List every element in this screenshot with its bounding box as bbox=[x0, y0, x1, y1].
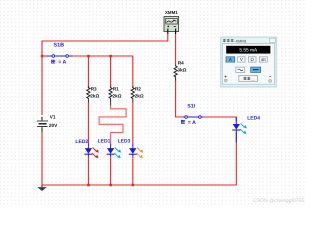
node: junction R1 top bbox=[109, 55, 112, 58]
svg-text:20V: 20V bbox=[49, 123, 58, 128]
wire: R1 branch top bbox=[110, 56, 112, 87]
LED2 bbox=[84, 144, 99, 159]
svg-text:R3: R3 bbox=[91, 86, 97, 91]
wire: R3 branch top bbox=[87, 56, 89, 88]
resistor R2 bbox=[131, 86, 134, 102]
wire: S1I to LED4 corner bbox=[203, 117, 236, 122]
svg-text:2kΩ: 2kΩ bbox=[135, 93, 144, 98]
svg-text:LED4: LED4 bbox=[247, 116, 260, 122]
svg-text:CSDN @chenggt0765: CSDN @chenggt0765 bbox=[253, 198, 305, 204]
LED3 bbox=[129, 144, 144, 159]
terminal minus bbox=[269, 77, 272, 83]
wire: bottom rail bbox=[42, 184, 236, 186]
window title bbox=[223, 39, 234, 42]
svg-text:LED1: LED1 bbox=[98, 139, 111, 145]
svg-text:dB: dB bbox=[261, 57, 266, 62]
svg-text:2kΩ: 2kΩ bbox=[113, 93, 122, 98]
svg-text:V: V bbox=[240, 57, 243, 62]
battery V1 bbox=[37, 117, 48, 132]
svg-text:LED3: LED3 bbox=[118, 139, 131, 145]
svg-text:XMM1: XMM1 bbox=[165, 10, 178, 15]
LED1 bbox=[107, 144, 122, 159]
wire: top rail from corner to multimeter left terminal bbox=[42, 34, 168, 41]
svg-text:...: ... bbox=[251, 76, 255, 81]
node: junction LED1 bottom bbox=[109, 184, 112, 187]
svg-text:R1: R1 bbox=[113, 86, 119, 91]
wire: LED2 bottom bbox=[87, 156, 89, 185]
wire: R4 bottom to S1I corner bbox=[176, 80, 183, 118]
svg-text:LED2: LED2 bbox=[75, 139, 88, 145]
node: junction left rail bbox=[41, 55, 44, 58]
button sine bbox=[236, 67, 245, 72]
svg-text:= A: = A bbox=[188, 120, 196, 126]
wire: switch rail S1B to R2 branch corner bbox=[72, 56, 133, 88]
label key = A (S1B) bbox=[51, 60, 55, 64]
button DC (selected) bbox=[251, 67, 261, 72]
resistor R3 bbox=[87, 86, 90, 102]
button ohm bbox=[249, 57, 257, 62]
svg-text:3kΩ: 3kΩ bbox=[177, 67, 186, 72]
wire: multimeter right terminal to R4 bbox=[175, 34, 177, 66]
wire: snake R1 bottom to LED1 bbox=[99, 106, 126, 144]
ground bbox=[37, 185, 46, 191]
button settings bbox=[239, 75, 258, 81]
switch S1I bbox=[183, 116, 203, 119]
svg-text:= A: = A bbox=[58, 60, 66, 66]
terminal plus bbox=[224, 76, 227, 83]
wire: switch rail left segment bbox=[42, 55, 48, 57]
label key = A (S1I) bbox=[181, 120, 185, 124]
wire: LED3 bottom bbox=[132, 156, 134, 185]
resistor R1 bbox=[109, 86, 112, 106]
svg-text:S1B: S1B bbox=[54, 43, 65, 49]
wire: battery bottom to ground corner bbox=[41, 132, 43, 186]
svg-text:V1: V1 bbox=[50, 115, 56, 120]
wire: LED1 bottom bbox=[110, 156, 112, 185]
multimeter XMM1 icon bbox=[164, 17, 179, 35]
svg-text:2kΩ: 2kΩ bbox=[90, 93, 99, 98]
svg-text:-XMM1: -XMM1 bbox=[234, 38, 247, 43]
button dB bbox=[260, 57, 268, 62]
node: junction LED2 bottom bbox=[87, 184, 90, 187]
node: junction LED3 bottom bbox=[132, 184, 135, 187]
svg-text:S1I: S1I bbox=[187, 104, 195, 110]
LED4 bbox=[232, 117, 247, 142]
button V bbox=[238, 57, 245, 62]
svg-text:R2: R2 bbox=[135, 86, 141, 91]
svg-text:5.55 mA: 5.55 mA bbox=[239, 48, 258, 54]
resistor R4 bbox=[174, 65, 177, 81]
wire: LED4 bottom to rail bbox=[235, 132, 237, 186]
wire: R2 bottom to LED3 bbox=[132, 102, 134, 144]
button A (selected) bbox=[226, 57, 235, 62]
svg-text:R4: R4 bbox=[178, 60, 184, 65]
node: junction R3 top bbox=[87, 55, 90, 58]
svg-text:A: A bbox=[229, 57, 232, 62]
switch S1B bbox=[47, 55, 73, 58]
wire: R3 bottom to LED2 bbox=[87, 102, 89, 144]
wire: battery to top-left corner vertical bbox=[41, 41, 43, 115]
display bbox=[224, 45, 272, 55]
multimeter panel window bbox=[221, 37, 277, 87]
